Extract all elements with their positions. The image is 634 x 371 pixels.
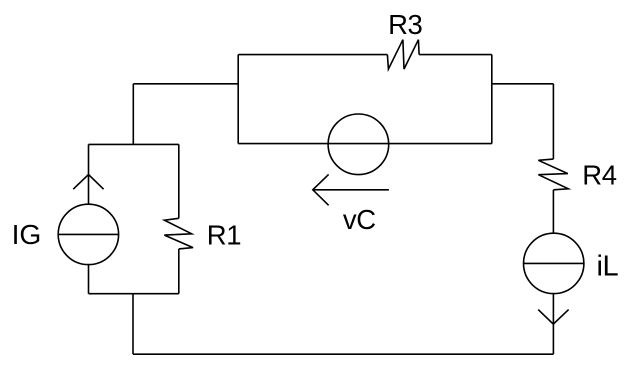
wire: right branch vertical lower [552, 294, 554, 355]
svg-text:R4: R4 [582, 159, 616, 190]
resistor R3 [387, 40, 419, 69]
label R1 [207, 219, 241, 250]
wire: bottom horizontal [133, 353, 553, 355]
wire: parallel box right edge upper [178, 144, 180, 218]
wire: vertical drop from left node to parallel box top [132, 84, 134, 145]
svg-text:R1: R1 [207, 219, 241, 250]
wire: parallel box left edge lower [88, 265, 90, 294]
IG direction arrow [73, 175, 103, 190]
svg-text:vC: vC [343, 204, 376, 235]
label vC [343, 204, 376, 235]
resistor R1 [164, 218, 193, 249]
current source iL [524, 233, 584, 293]
svg-text:iL: iL [597, 250, 619, 282]
wire: horizontal from top box right edge to right branch [492, 83, 554, 85]
vC reference arrow [313, 174, 389, 205]
wire: parallel box right edge lower [178, 249, 180, 294]
wire: horizontal from left node to top box left edge [133, 83, 238, 85]
label R3 [388, 9, 422, 40]
wire: top box right edge [491, 55, 493, 144]
capacitor vC (circle element on bottom edge) [328, 114, 389, 175]
wire: right branch between R4 and iL [552, 190, 554, 233]
wire: top box top edge right segment [419, 54, 492, 56]
wire: parallel box bottom edge [89, 293, 179, 295]
label IG [12, 218, 42, 250]
wire: parallel box top edge [89, 143, 179, 145]
wire: right branch vertical upper [552, 84, 554, 159]
wire: stub from parallel box bottom to bottom wire [132, 294, 134, 355]
svg-text:IG: IG [12, 218, 42, 250]
svg-text:R3: R3 [388, 9, 422, 40]
wire: top box left edge [237, 55, 239, 144]
label R4 [582, 159, 616, 190]
current source IG [58, 204, 118, 264]
resistor R4 [538, 159, 568, 190]
wire: top box bottom edge [238, 143, 492, 145]
wire: top box top edge left segment [238, 54, 387, 56]
wire: parallel box left edge upper [88, 144, 90, 204]
label iL [597, 250, 619, 282]
iL direction arrow [538, 310, 568, 325]
